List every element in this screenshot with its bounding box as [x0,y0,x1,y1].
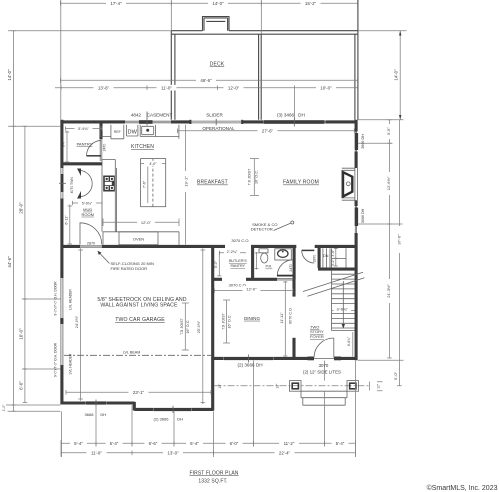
pantry bottom / mud room top wall [61,162,103,165]
svg-text:23'-1": 23'-1" [133,390,145,395]
svg-text:5'-2": 5'-2" [331,258,335,266]
svg-text:4070 TWN: 4070 TWN [70,177,74,194]
svg-text:14'-0": 14'-0" [394,69,399,81]
extension line at deck top level to far left [8,30,171,32]
window 4842 casement in top wall [125,112,171,126]
dim 15'-2" [301,0,321,6]
mud room door swing [80,223,102,245]
svg-text:4'-0": 4'-0" [149,162,157,166]
svg-text:PANTRY: PANTRY [230,264,245,268]
pantry door swing [86,140,101,156]
svg-text:PANTRY: PANTRY [77,142,93,147]
dim 6'-11" mud room [68,205,72,245]
left inner ticks [23,126,28,402]
svg-text:4'-6¾": 4'-6¾" [347,336,351,346]
dim line 27'-6" breakfast/family [178,129,355,134]
svg-text:(2) 3666 DH: (2) 3666 DH [237,363,262,368]
deck top wall [171,31,358,35]
LVL beam dashed [64,354,211,356]
svg-text:2470: 2470 [289,264,293,272]
dim line 46'-6" [61,78,358,83]
front door side lite right [334,357,341,361]
svg-text:P.R.: P.R. [266,265,273,269]
left outer ticks [11,31,16,412]
chain2 ticks [61,85,295,119]
svg-text:25'-0½": 25'-0½" [197,320,201,333]
svg-text:OVEN: OVEN [133,237,144,242]
extension line house top left [8,125,61,127]
svg-text:SLIDER: SLIDER [206,112,223,117]
kitchen top counter outline [100,125,179,139]
svg-text:(2) 12" SIDE LITES: (2) 12" SIDE LITES [303,370,341,375]
PR toilet [259,249,268,263]
porch steps [301,391,347,405]
BP/PR divider wall [251,248,254,280]
pantry right wall [99,122,102,139]
top dim chain line [61,2,358,4]
kitchen island [141,159,166,207]
PR right wall [293,248,296,280]
porch centerline end tick [369,382,371,391]
porch centerline [215,385,370,387]
front door side lite left [308,357,315,361]
line A ticks [387,120,392,358]
deck divider wall [259,34,262,120]
kitchen left tall counter [102,160,117,232]
dim 14'-0" top [208,0,228,6]
svg-text:6'-0": 6'-0" [230,441,239,446]
extension line from top chain to deck left [170,0,172,31]
dim 12'-6 1/2" [386,172,392,195]
bottom chain row2 line [61,452,355,454]
svg-text:TJI JOIST: TJI JOIST [248,168,252,185]
svg-text:9'-0"x7'-0" O.H. DOOR: 9'-0"x7'-0" O.H. DOOR [53,342,57,377]
svg-text:1'-0": 1'-0" [2,404,6,412]
extension deck top right [358,30,407,32]
svg-text:12'-0": 12'-0" [141,220,152,225]
svg-text:24'-0½": 24'-0½" [75,315,79,328]
mud closet door leafs [77,169,81,199]
basement stair closet left wall [318,246,321,268]
dim 12'-0" dining [215,289,293,293]
svg-text:12'-0": 12'-0" [228,85,240,90]
svg-text:2'-2¾": 2'-2¾" [227,250,238,254]
svg-text:LVL BEAM: LVL BEAM [123,351,141,355]
svg-text:1332 SQ.FT.: 1332 SQ.FT. [198,478,227,484]
deck stair bump [203,17,230,31]
svg-text:FIRE RATED DOOR: FIRE RATED DOOR [111,266,148,271]
svg-text:3'-6": 3'-6" [331,249,335,257]
window 3666 DH upper (right wall) [355,132,358,152]
dim 13'-6" [94,85,114,91]
svg-text:FIRST FLOOR PLAN: FIRST FLOOR PLAN [189,470,238,476]
svg-text:5'-4": 5'-4" [336,441,345,446]
butlers pantry / PR top wall resumes right of 3070 CO [251,245,296,248]
svg-text:3070 C.O.: 3070 C.O. [231,238,249,243]
svg-text:5'-4": 5'-4" [110,441,119,446]
deck left wall [171,31,175,120]
dim 11'-11" dining [283,281,287,356]
kitchen bottom counter [103,232,179,245]
svg-text:(3) 3466: (3) 3466 [277,112,295,117]
stair break lines (double diagonal) [303,272,365,296]
mud room closet doors (french pair) [79,170,92,196]
svg-text:6070 C.O.: 6070 C.O. [289,307,293,324]
dim 5'-4" a [70,441,87,446]
svg-text:3666 DH: 3666 DH [361,208,365,223]
slider door to deck in top wall [189,119,243,125]
window (3) 3466 DH in top wall [263,118,326,127]
pantry door opening (thin jamb) [100,139,102,161]
dining top wall (BP/PR bottom) with openings [213,278,296,281]
extension line from top chain to deck divider [260,0,262,34]
svg-text:DW: DW [128,130,138,136]
porch column right [347,381,359,392]
svg-text:15'-2": 15'-2" [305,1,317,6]
porch column left [290,381,302,392]
PR sink counter [275,249,292,260]
dim 46'-6" [196,78,216,84]
svg-text:TWO CAR GARAGE: TWO CAR GARAGE [115,317,165,323]
PR door opening [277,279,294,280]
svg-text:16" O.C.: 16" O.C. [227,314,231,328]
bottom extension lines [62,361,356,458]
right inner dim line A [388,120,390,358]
stair right dim 4'-6 3/4" [352,332,354,357]
svg-text:14'-0": 14'-0" [7,69,12,81]
svg-text:19'-1": 19'-1" [183,176,188,187]
svg-text:28'-0": 28'-0" [18,202,23,214]
garage right wall [211,245,214,410]
wall oven box [119,232,158,245]
fireplace surround bottom band [342,198,355,200]
exterior right wall [355,120,358,360]
svg-text:27'-6": 27'-6" [262,129,274,134]
svg-text:3666 DH: 3666 DH [361,134,365,149]
top chain ticks [61,1,358,6]
dim 6'-7" pantry [65,131,69,163]
kitchen-garage wall (with mud room door) [61,245,226,248]
extension front wall right [358,359,404,361]
svg-text:CASEMENT: CASEMENT [147,112,173,117]
joist symbol dining [223,300,230,343]
window 3668 DH in garage front wall [86,400,107,407]
svg-text:KITCHEN: KITCHEN [131,144,154,150]
svg-text:2870: 2870 [87,241,95,245]
svg-text:16" O.C.: 16" O.C. [186,319,190,333]
svg-text:DINING: DINING [244,316,261,321]
basement stair door swing [302,250,315,263]
garage door opening 1 (left wall) [61,278,63,319]
svg-text:10'-0": 10'-0" [320,85,332,90]
main stair run left edge [332,270,355,330]
garage dim 24'-0 1/2" [78,248,83,401]
dim 5'-0" porch right [397,360,402,386]
svg-text:11'-2": 11'-2" [284,441,295,446]
window 4070 TWN in left wall [59,168,66,199]
svg-text:DH: DH [298,112,305,117]
dim 12'-0" top [224,85,244,91]
dim 21'-3 1/2" [386,279,392,303]
svg-text:FOYER: FOYER [310,334,324,339]
svg-text:37'-6": 37'-6" [396,234,401,245]
svg-text:21'-3½": 21'-3½" [386,284,391,298]
dim 11'-2" [279,441,299,446]
extension top right corner [358,119,404,121]
dim 5'-4" b [106,441,123,446]
svg-text:4842: 4842 [131,112,142,117]
svg-text:10": 10" [218,383,222,389]
extension line garage front left level [6,404,61,406]
left inner dim line [24,126,26,402]
dining right wall post lower [292,338,295,358]
stair width dim 3'-6 3/4" [332,309,355,311]
dim 17'-4" [106,0,126,6]
dim 27'-6" [258,128,278,134]
svg-text:13'-0": 13'-0" [167,451,179,456]
exterior top wall [61,120,358,123]
basement stair treads (upper run, vertical lines) [323,248,332,268]
dim 6'-0" [226,441,243,446]
svg-text:6'-7": 6'-7" [62,139,66,147]
garage front wall step [133,402,136,411]
dim 6'-6" [145,441,162,446]
dim 3'-9" [386,124,392,139]
svg-text:TJI JOIST: TJI JOIST [180,317,184,334]
svg-text:(2) 3666: (2) 3666 [154,416,170,421]
svg-text:9'-0"x7'-0" O.H. DOOR: 9'-0"x7'-0" O.H. DOOR [53,281,57,316]
front wall (dining / foyer) [214,357,358,360]
svg-text:ROOM: ROOM [81,212,93,217]
joist symbol garage [182,303,189,350]
svg-text:OPERATIONAL: OPERATIONAL [202,126,235,131]
svg-text:WALL AGAINST LIVING SPACE: WALL AGAINST LIVING SPACE [100,302,178,308]
svg-text:11'-11": 11'-11" [280,312,284,324]
svg-text:BREAKFAST: BREAKFAST [197,180,228,186]
dim 5'-9 3/4" pantry [66,126,103,130]
left outer dim line [13,31,15,412]
dim chain 2 line [55,87,358,89]
svg-text:REF: REF [114,130,121,134]
dim 23'-1" garage [66,390,211,395]
svg-text:5'-9¾": 5'-9¾" [82,202,93,206]
svg-text:6'-11": 6'-11" [64,215,68,225]
dim 10'-0" top [316,85,336,91]
svg-text:3'-9": 3'-9" [386,127,391,136]
svg-text:FAMILY ROOM: FAMILY ROOM [283,180,319,186]
svg-text:13'-6": 13'-6" [98,85,110,90]
svg-text:3070: 3070 [319,363,329,368]
exterior left wall [60,120,63,405]
garage front wall right segment [134,408,213,411]
garage dim 25'-0 1/2" [201,248,206,404]
extension window line right [358,142,393,144]
bottom chain row1 line [61,442,355,444]
BP dim 2'-2 3/4" [220,251,247,255]
svg-text:22'-4": 22'-4" [279,451,291,456]
stair landing box [318,248,346,268]
dim 11'-0" bottom [87,450,107,455]
svg-text:5'-4": 5'-4" [74,441,83,446]
fireplace surround top band [342,168,355,170]
dim 5'-9 3/4" mud room [73,201,103,205]
svg-text:BUTLER'S: BUTLER'S [229,259,247,263]
foyer top wall [315,245,358,248]
svg-text:6'-6": 6'-6" [18,381,23,390]
right outer dim line B 37'-6" [398,120,400,360]
svg-text:12'-0": 12'-0" [246,286,257,291]
svg-text:©SmartMLS, Inc. 2023: ©SmartMLS, Inc. 2023 [427,484,498,492]
svg-text:16" O.C.: 16" O.C. [255,170,259,184]
front door leaf and swing [314,338,334,358]
svg-text:DECK: DECK [210,62,225,68]
dim 6'-4" [186,441,203,446]
garage door opening 2 (left wall) [61,323,63,365]
joist symbol breakfast [250,159,259,196]
svg-text:10'-0": 10'-0" [18,328,23,340]
svg-text:17'-4": 17'-4" [110,1,122,6]
svg-text:10": 10" [377,383,381,389]
dim 13'-0" [163,450,183,455]
svg-text:7'-6": 7'-6" [143,180,147,188]
PR door swing [277,260,293,276]
svg-text:44'-6": 44'-6" [7,256,12,268]
row1 ticks [96,441,325,446]
window 3666 DH lower (right wall) [355,206,358,233]
svg-text:DH: DH [100,412,106,417]
row2 ticks [61,440,355,457]
dim 11'-0" [157,85,177,91]
dim 19'-1" breakfast [185,125,187,245]
extension line garage door 2 center [22,368,61,370]
svg-text:LVL HEADER: LVL HEADER [68,353,72,374]
dining right wall post upper [292,279,295,296]
svg-text:DH: DH [177,416,183,421]
BP dim 5'-0" [217,252,221,277]
svg-text:3668: 3668 [85,412,95,417]
svg-text:DETECTOR: DETECTOR [251,227,273,232]
svg-text:LVL HEADER: LVL HEADER [68,289,72,310]
dim 7'-6" island [147,167,149,204]
PR interior dim line [255,252,259,270]
svg-text:46'-6": 46'-6" [200,78,212,83]
svg-text:10": 10" [276,383,280,389]
svg-text:DN: DN [323,254,329,258]
garage front wall left segment [61,401,135,404]
stair divider wall band [318,268,355,271]
kitchen sink [142,126,154,134]
svg-text:5'-0": 5'-0" [214,260,218,268]
range/stove [103,176,115,192]
svg-text:2870: 2870 [313,255,317,263]
garage door center post [60,318,63,324]
svg-text:11'-0": 11'-0" [91,451,102,456]
window (2) 3866 DH in front wall [224,355,274,363]
svg-text:14'-0": 14'-0" [212,1,224,6]
svg-text:5'-9¾": 5'-9¾" [78,127,89,131]
dim 5'-4" c [332,441,349,446]
stair small dim line [334,248,338,266]
right dim 14'-0" line [399,31,401,120]
stair direction arrow [342,281,344,325]
svg-text:6'-4": 6'-4" [190,441,199,446]
svg-text:6'-6": 6'-6" [149,441,158,446]
main stair treads [332,274,355,328]
mud room door opening (2870) [80,246,102,247]
dim 12'-0" kitchen [103,219,179,227]
svg-text:3'-6¾": 3'-6¾" [337,307,349,312]
extension mid right [358,223,403,225]
svg-text:2470: 2470 [102,144,106,152]
fireplace firebox [342,170,353,198]
svg-text:11'-0": 11'-0" [161,85,172,90]
extension line garage door 1 center [22,298,61,300]
svg-text:5'-0": 5'-0" [393,371,398,380]
front door sill [314,358,334,360]
svg-text:TJI JOIST: TJI JOIST [221,312,225,329]
deck right wall line [355,0,358,120]
dim 4'-0" island [145,161,161,166]
label 2870 mud door [84,240,98,245]
svg-text:12'-6½": 12'-6½" [386,176,391,190]
dim 22'-4" [275,450,295,455]
extension line left of house from top chain [60,0,62,120]
extension line garage front right level [8,410,61,412]
window (2) 3666 DH in garage front wall [153,406,192,413]
